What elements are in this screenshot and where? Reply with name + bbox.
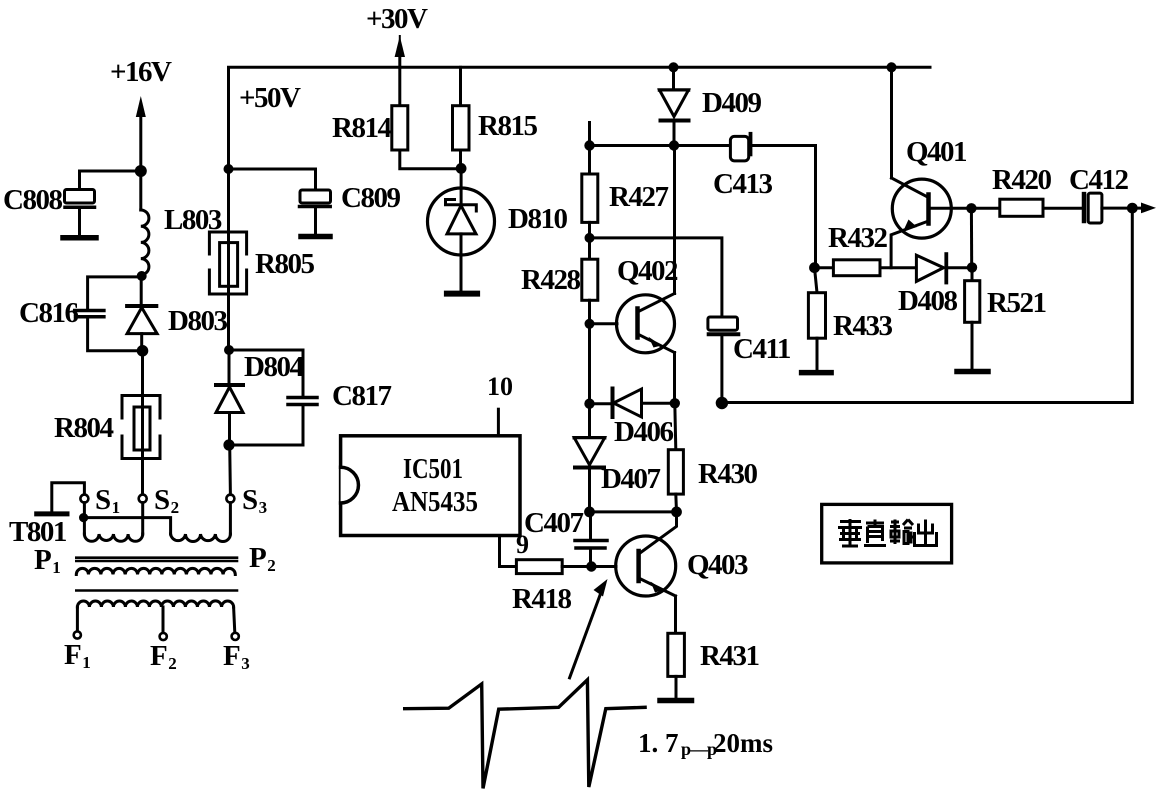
svg-text:+30V: +30V bbox=[366, 3, 428, 35]
svg-text:R521: R521 bbox=[987, 287, 1045, 319]
svg-text:S2: S2 bbox=[154, 484, 179, 517]
svg-text:S3: S3 bbox=[242, 484, 267, 517]
svg-text:D406: D406 bbox=[614, 416, 673, 448]
svg-text:10: 10 bbox=[487, 372, 513, 401]
svg-text:C411: C411 bbox=[733, 333, 790, 365]
svg-text:C809: C809 bbox=[341, 182, 400, 214]
svg-text:R431: R431 bbox=[700, 640, 758, 672]
svg-text:R430: R430 bbox=[698, 458, 757, 490]
svg-text:R418: R418 bbox=[512, 583, 571, 615]
svg-text:C413: C413 bbox=[713, 168, 772, 200]
svg-text:p—p: p—p bbox=[681, 739, 717, 759]
svg-text:Q403: Q403 bbox=[687, 549, 748, 581]
svg-text:C816: C816 bbox=[19, 297, 78, 329]
svg-text:IC501: IC501 bbox=[403, 454, 463, 485]
svg-text:20ms: 20ms bbox=[713, 728, 773, 758]
svg-text:F2: F2 bbox=[150, 640, 176, 673]
svg-text:P2: P2 bbox=[249, 542, 275, 575]
svg-text:R805: R805 bbox=[255, 248, 314, 280]
svg-text:C407: C407 bbox=[524, 507, 583, 539]
svg-text:C808: C808 bbox=[3, 184, 62, 216]
svg-text:Q401: Q401 bbox=[906, 136, 966, 168]
svg-text:P1: P1 bbox=[34, 544, 60, 577]
svg-text:AN5435: AN5435 bbox=[392, 487, 478, 518]
svg-text:R814: R814 bbox=[332, 112, 391, 144]
svg-text:R432: R432 bbox=[828, 222, 887, 254]
svg-text:L803: L803 bbox=[164, 204, 222, 236]
svg-text:+50V: +50V bbox=[239, 82, 301, 114]
svg-text:F1: F1 bbox=[64, 639, 90, 672]
svg-text:+16V: +16V bbox=[110, 56, 172, 88]
svg-text:S1: S1 bbox=[95, 484, 120, 517]
svg-text:D803: D803 bbox=[168, 305, 227, 337]
svg-text:D408: D408 bbox=[898, 285, 957, 317]
svg-text:R804: R804 bbox=[54, 412, 113, 444]
svg-text:D407: D407 bbox=[601, 463, 660, 495]
svg-text:R428: R428 bbox=[521, 264, 580, 296]
svg-text:R420: R420 bbox=[992, 164, 1051, 196]
svg-text:C817: C817 bbox=[332, 380, 391, 412]
svg-text:9: 9 bbox=[516, 530, 529, 559]
svg-text:R433: R433 bbox=[833, 310, 892, 342]
svg-text:F3: F3 bbox=[223, 640, 249, 673]
svg-text:R815: R815 bbox=[478, 110, 537, 142]
svg-text:D409: D409 bbox=[702, 87, 761, 119]
svg-text:D804: D804 bbox=[244, 351, 303, 383]
svg-text:C412: C412 bbox=[1069, 164, 1128, 196]
svg-text:1. 7: 1. 7 bbox=[638, 728, 679, 758]
svg-text:D810: D810 bbox=[508, 203, 567, 235]
svg-text:Q402: Q402 bbox=[617, 255, 678, 287]
svg-text:R427: R427 bbox=[609, 181, 668, 213]
